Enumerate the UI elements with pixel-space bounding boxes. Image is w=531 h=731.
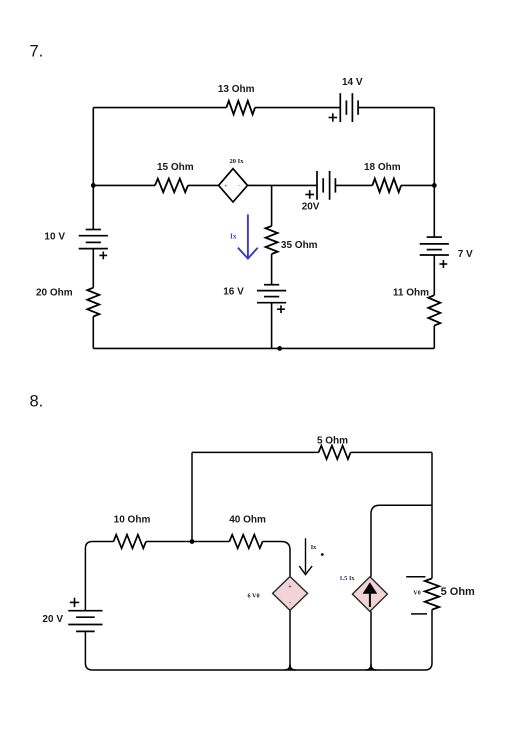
svg-text:5 Ohm: 5 Ohm xyxy=(317,436,348,447)
svg-text:1.5 Ix: 1.5 Ix xyxy=(339,575,355,582)
svg-text:15 Ohm: 15 Ohm xyxy=(157,162,194,173)
svg-text:10 Ohm: 10 Ohm xyxy=(114,515,151,526)
svg-text:11 Ohm: 11 Ohm xyxy=(393,287,429,298)
svg-text:20V: 20V xyxy=(302,202,320,213)
svg-text:40 Ohm: 40 Ohm xyxy=(229,515,266,526)
svg-text:5 Ohm: 5 Ohm xyxy=(441,586,475,598)
svg-text:14 V: 14 V xyxy=(342,77,363,88)
svg-text:16 V: 16 V xyxy=(223,286,244,297)
svg-text:18 Ohm: 18 Ohm xyxy=(364,162,401,173)
svg-text:Ix: Ix xyxy=(230,232,237,240)
svg-text:6 V0: 6 V0 xyxy=(247,593,259,600)
svg-text:+: + xyxy=(288,585,292,591)
svg-text:20 Ohm: 20 Ohm xyxy=(36,287,73,298)
svg-text:V0: V0 xyxy=(413,590,421,597)
svg-text:8.: 8. xyxy=(30,393,44,411)
svg-text:20 Ix: 20 Ix xyxy=(230,158,245,165)
svg-text:10 V: 10 V xyxy=(44,232,65,243)
svg-text:Ix: Ix xyxy=(311,544,317,551)
svg-text:-: - xyxy=(238,184,240,190)
svg-text:+: + xyxy=(224,184,227,190)
svg-text:7.: 7. xyxy=(30,43,44,61)
svg-text:7 V: 7 V xyxy=(458,249,473,260)
svg-text:35 Ohm: 35 Ohm xyxy=(281,240,318,251)
svg-text:13 Ohm: 13 Ohm xyxy=(218,84,255,95)
svg-text:20 V: 20 V xyxy=(42,614,63,625)
